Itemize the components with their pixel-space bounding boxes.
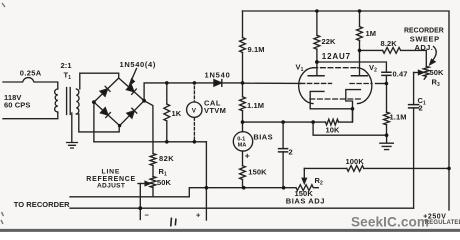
wire: 1K top lead [166, 83, 168, 104]
V2 plate bar [352, 75, 368, 77]
capacitor 2 branch top lead [282, 122, 284, 149]
resistor 1.1M left with leads [242, 83, 244, 97]
wire: 1K bottom lead [166, 121, 168, 142]
svg-text:2: 2 [419, 104, 423, 113]
tube envelope dashed joins [313, 67, 358, 69]
cathode bus [243, 121, 326, 123]
diode bridge top-left [100, 86, 110, 96]
ADJ curved arrow [430, 47, 436, 65]
svg-text:82K: 82K [159, 154, 174, 163]
svg-text:SeekIC.com: SeekIC.com [351, 214, 429, 229]
svg-text:10K: 10K [326, 126, 341, 135]
svg-text:1.1M: 1.1M [390, 113, 407, 122]
svg-text:50K: 50K [157, 178, 172, 187]
diode 1N540 series [214, 80, 222, 87]
tube envelope right arc [358, 68, 372, 104]
V1 grid dashed [301, 82, 332, 84]
svg-text:TO RECORDER: TO RECORDER [14, 200, 70, 209]
wire: bridge right corner riser to rail [144, 83, 214, 101]
wire: dc bus [94, 141, 206, 143]
R2 wiper arrow from 100K [302, 168, 306, 183]
wire: secondary top to bridge top corner [80, 73, 119, 89]
100K line [304, 167, 347, 169]
capacitor 0.47 plates [382, 72, 391, 75]
capacitor 2 bottom lead [282, 152, 284, 188]
wire: secondary bottom to bridge bottom corner [76, 114, 119, 132]
wire: bus right end down to recorder line, terminal stub [205, 142, 207, 220]
battery mark on line 2 [171, 218, 176, 225]
capacitor C1 plates [409, 105, 419, 108]
V2 grid dashed [350, 83, 372, 85]
svg-text:150K: 150K [248, 167, 267, 176]
wire: 10K to cathode riser [339, 109, 353, 122]
svg-text:ADJUST: ADJUST [97, 183, 125, 190]
wire: 150K bottom [242, 180, 244, 188]
wire: 100K to +250V rail [364, 167, 449, 169]
resistor 1M with leads [359, 11, 361, 27]
wire: AC source bottom lead [3, 112, 58, 119]
label arrow 1N540(4) [130, 69, 137, 86]
svg-text:1N540: 1N540 [205, 71, 231, 80]
ground (main) [380, 135, 393, 149]
resistor 8.2K [383, 48, 401, 54]
resistor 1K [164, 104, 170, 121]
resistor 9.1M with leads [242, 11, 244, 38]
svg-text:R2: R2 [315, 176, 324, 187]
potentiometer R1 50K [150, 177, 156, 188]
R3 wiper arrow [414, 70, 424, 74]
resistor 82K [150, 154, 156, 166]
svg-text:R3: R3 [432, 78, 441, 89]
svg-text:0.47: 0.47 [393, 70, 408, 79]
diode bridge bottom-right [127, 108, 137, 118]
svg-text:MA: MA [238, 143, 247, 149]
svg-text:2:1: 2:1 [61, 61, 72, 70]
wire: diode to grid node [222, 82, 243, 84]
svg-text:8.2K: 8.2K [381, 39, 398, 48]
svg-text:22K: 22K [322, 37, 337, 46]
wire: 1M to V2 plate [359, 41, 361, 76]
wire: AC source top lead with fuse [3, 78, 58, 89]
wire: 8.2K to R3 top [401, 50, 427, 66]
R1 wiper arrow and wire to line 2 [138, 181, 150, 219]
wire: 22K to V1 plate [316, 49, 318, 75]
meter BIAS top lead [242, 122, 244, 132]
transformer T1 core [67, 88, 71, 115]
wire: C1 to recorder line 2 [413, 108, 415, 208]
svg-text:+: + [196, 211, 201, 220]
resistor 22K with leads [316, 11, 318, 35]
V1 plate bar [308, 75, 324, 77]
wire: 82K to R1 [152, 166, 154, 177]
svg-text:+: + [245, 150, 250, 160]
svg-text:R1: R1 [159, 167, 168, 178]
svg-text:ADJ.: ADJ. [415, 43, 434, 52]
svg-text:−: − [145, 211, 150, 220]
wire: bridge left corner down to bus [93, 102, 95, 142]
svg-text:1M: 1M [366, 29, 377, 38]
wire: 8.2K branch [360, 49, 383, 51]
svg-text:BIAS: BIAS [253, 133, 273, 142]
wire: bridge right corner down to 82K [144, 101, 153, 154]
svg-text:100K: 100K [346, 157, 365, 166]
wire: R3 wiper down to C1 [413, 73, 415, 105]
svg-text:1.1M: 1.1M [247, 101, 264, 110]
meter CAL VTVM circle [187, 102, 202, 117]
wire: 0.47 bottom to grid node V2 [385, 75, 387, 83]
svg-text:50K: 50K [430, 68, 445, 77]
svg-text:VTVM: VTVM [204, 106, 226, 115]
potentiometer R2 150K in line 1 [284, 187, 296, 189]
svg-text:1K: 1K [172, 109, 182, 118]
svg-text:V1: V1 [296, 63, 304, 74]
capacitor 2 plates [279, 149, 288, 152]
ground (transformer core) [67, 143, 78, 149]
recorder line 1 [70, 188, 284, 197]
svg-text:12AU7: 12AU7 [322, 52, 351, 61]
resistor 1.1M right with leads [386, 84, 388, 113]
wire: bus to ground U-link [313, 122, 387, 135]
diode bridge bottom-left [101, 108, 111, 118]
svg-text:V2: V2 [369, 63, 377, 74]
recorder line 2 [70, 207, 414, 209]
wire: core to ground [71, 113, 73, 142]
resistor 150K (bias meter) [240, 166, 246, 180]
diode bridge top-right [127, 84, 137, 94]
svg-text:9.1M: 9.1M [248, 45, 265, 54]
transformer T1 secondary winding [76, 89, 79, 114]
svg-text:V: V [192, 107, 197, 114]
svg-text:1N540(4): 1N540(4) [120, 60, 156, 69]
meter BIAS bottom lead [242, 151, 244, 166]
wire: R1 bottom to recorder line 1 [152, 188, 154, 197]
bridge rectifier edges [94, 78, 144, 126]
top supply rail [243, 11, 450, 210]
meter BIAS circle 0-1 MA [233, 132, 252, 151]
svg-text:RECORDER: RECORDER [404, 28, 444, 35]
meter CAL VTVM dashed leads [193, 86, 195, 142]
tube 12AU7 envelope left arc [299, 68, 313, 104]
V2 cathode [346, 90, 361, 123]
wire: V2 grid to node [376, 83, 387, 85]
svg-text:60 CPS: 60 CPS [4, 101, 30, 110]
wire: V1 plate node to 0.47 cap [317, 62, 387, 72]
svg-text:BIAS ADJ: BIAS ADJ [286, 197, 325, 206]
wire: grid node to V1 grid [243, 82, 302, 84]
resistor 100K [347, 166, 364, 172]
svg-text:REGULATED: REGULATED [425, 220, 460, 226]
potentiometer R3 50K [423, 66, 429, 79]
svg-text:LINE: LINE [102, 169, 121, 176]
svg-text:2: 2 [289, 148, 293, 157]
V1 cathode [310, 91, 352, 108]
transformer T1 primary winding [55, 89, 58, 112]
svg-text:T1: T1 [64, 71, 72, 82]
svg-text:0.25A: 0.25A [20, 69, 42, 78]
resistor 10K (cathode) [326, 119, 339, 125]
